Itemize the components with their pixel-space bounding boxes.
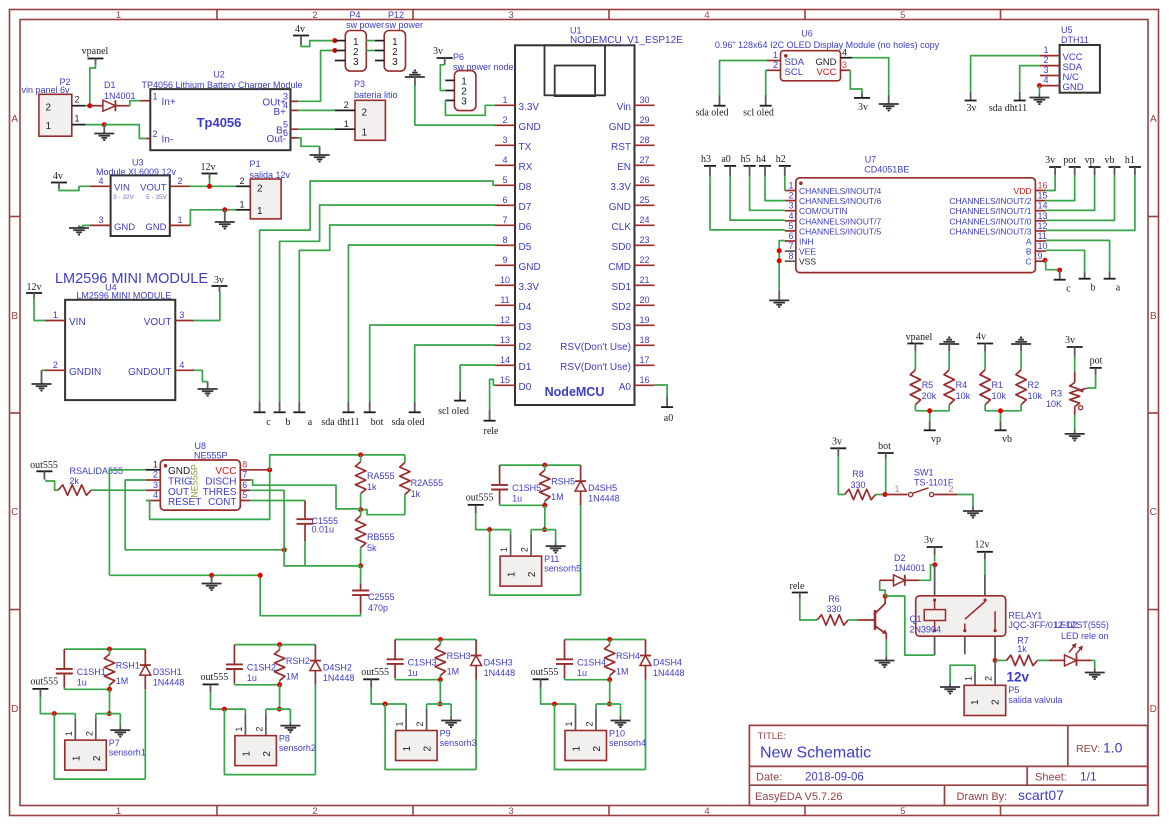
svg-text:1: 1 [970, 699, 981, 705]
svg-text:RST: RST [611, 142, 631, 153]
net label bot at SW1 [878, 441, 894, 459]
terminal vb at U7 [1105, 155, 1121, 175]
svg-text:D2: D2 [894, 553, 906, 563]
svg-text:2: 2 [527, 571, 538, 577]
wire U7 C to terminal c [1045, 260, 1060, 269]
wire a0 to U7 pin 4 [730, 176, 785, 220]
U4 pin 2 GNDIN [45, 360, 65, 370]
junction bus ground [209, 573, 214, 578]
P9 pin 1 [395, 709, 407, 731]
terminal b at U7 [1079, 272, 1096, 294]
U7 pin 6 INH [785, 231, 814, 247]
svg-text:Module XL6009 12v: Module XL6009 12v [96, 167, 177, 177]
junction U7 C pin [1043, 258, 1048, 263]
svg-text:12v: 12v [1007, 670, 1030, 685]
resistor RSH5 1M [540, 465, 576, 505]
svg-text:U3: U3 [132, 158, 144, 168]
svg-text:1: 1 [116, 10, 121, 21]
connector P11 sensorh5 [500, 554, 581, 586]
svg-text:LM2596 MINI MODULE: LM2596 MINI MODULE [55, 271, 208, 287]
svg-text:2: 2 [239, 176, 244, 186]
svg-text:1: 1 [239, 200, 244, 210]
svg-text:out555: out555 [30, 677, 58, 688]
wire 12v to U4 VIN [34, 298, 45, 321]
svg-text:D4: D4 [519, 302, 532, 313]
svg-text:Out-: Out- [267, 134, 286, 145]
svg-text:4: 4 [1043, 75, 1048, 85]
junction RSH5 bottom [542, 503, 547, 508]
resistor R8 330 [845, 469, 876, 500]
junction RSH2 top [277, 642, 282, 647]
U1 pin 22 CMD [608, 255, 654, 273]
resistor R5 20k [910, 351, 937, 410]
resistor RB555 5k [355, 510, 394, 566]
junction TRIG-THRES [282, 547, 287, 552]
svg-text:2: 2 [312, 10, 317, 21]
svg-text:1/1: 1/1 [1080, 770, 1097, 784]
svg-text:2: 2 [257, 184, 263, 195]
junction P9 pin2 row [438, 702, 443, 707]
switch SW1 TS-1101F [885, 468, 958, 497]
svg-text:1M: 1M [447, 667, 460, 677]
svg-text:1N4448: 1N4448 [323, 673, 355, 683]
svg-text:B: B [11, 311, 18, 322]
svg-text:20k: 20k [922, 391, 937, 401]
junction relay contact R7 P5 [993, 658, 998, 663]
svg-text:RSH4: RSH4 [616, 651, 640, 661]
svg-text:C1SH3: C1SH3 [408, 658, 437, 668]
svg-text:4: 4 [179, 360, 184, 370]
svg-text:2: 2 [788, 191, 793, 201]
svg-text:4: 4 [502, 155, 507, 165]
svg-text:scl oled: scl oled [438, 406, 469, 417]
svg-text:LED2: LED2 [1055, 620, 1078, 630]
svg-text:9: 9 [502, 255, 507, 265]
module U5 DTH11 [1060, 25, 1100, 93]
svg-text:2: 2 [262, 751, 273, 757]
svg-text:1: 1 [241, 751, 252, 757]
svg-text:bateria litio: bateria litio [354, 90, 398, 100]
resistor RSH4 1M [605, 640, 641, 680]
U4 pin 3 VOUT [175, 310, 194, 321]
svg-text:R8: R8 [852, 469, 864, 479]
svg-text:6: 6 [788, 231, 793, 241]
wire vpanel to P2.2 junction [90, 64, 96, 106]
svg-text:2: 2 [1043, 55, 1048, 65]
connector P7 sensorh1 [65, 738, 146, 770]
net label out555 at P10 [531, 667, 559, 688]
svg-text:CHANNELS/INOUT/1: CHANNELS/INOUT/1 [949, 206, 1031, 216]
wire out555 node to diode bottom [224, 709, 315, 775]
P3 pin 2 [335, 100, 355, 110]
svg-text:C: C [11, 507, 18, 518]
U1 pin 24 CLK [612, 215, 655, 233]
svg-text:D4SH2: D4SH2 [323, 663, 352, 673]
svg-text:sda oled: sda oled [695, 108, 728, 119]
svg-text:3: 3 [508, 10, 513, 21]
P1 pin 1 [236, 200, 250, 210]
svg-text:GND: GND [1063, 82, 1084, 93]
svg-text:A: A [1150, 114, 1157, 125]
svg-text:R2A555: R2A555 [411, 478, 444, 488]
U2 pin 6 Out- [267, 128, 298, 145]
junction VEE [777, 248, 782, 253]
svg-text:1k: 1k [367, 482, 377, 492]
svg-text:1M: 1M [286, 672, 299, 682]
svg-text:14: 14 [500, 355, 510, 365]
svg-text:NE555P: NE555P [194, 451, 228, 461]
svg-text:RSV(Don't Use): RSV(Don't Use) [560, 342, 631, 353]
svg-text:CHANNELS/INOUT/4: CHANNELS/INOUT/4 [799, 186, 881, 196]
svg-text:VOUT: VOUT [144, 317, 172, 328]
net label 12v at P1 [201, 162, 218, 179]
wire D2 to 3v junction [920, 565, 936, 581]
module U1 NodeMCU [515, 26, 683, 406]
U4 pin 1 VIN [45, 310, 65, 321]
wire THRES to RB555 bottom [250, 490, 361, 566]
svg-text:U2: U2 [213, 70, 225, 80]
svg-text:VSS: VSS [799, 257, 816, 267]
svg-text:12: 12 [500, 315, 510, 325]
svg-text:1: 1 [395, 721, 405, 726]
svg-text:14: 14 [1038, 201, 1048, 211]
wire P4 to P12 row2 [366, 50, 375, 52]
wire RSH2 bottom to P-row [279, 685, 281, 709]
svg-text:GND: GND [519, 262, 541, 273]
svg-text:RSH5: RSH5 [551, 477, 575, 487]
wire INH VEE VSS to ground [779, 241, 785, 291]
svg-text:1: 1 [507, 571, 518, 577]
wire vb to U7 [1046, 175, 1115, 220]
wire U6 SCL to scl oled [766, 70, 767, 95]
svg-text:P8: P8 [279, 734, 290, 744]
svg-text:1u: 1u [247, 673, 257, 683]
wire D1 to scl oled [460, 365, 495, 392]
svg-text:P4: P4 [350, 10, 361, 20]
terminal sda dht11 at U5 [989, 92, 1027, 114]
net label 12v blue at P5 [1007, 670, 1030, 685]
svg-text:17: 17 [639, 355, 649, 365]
svg-text:sda oled: sda oled [391, 417, 424, 428]
svg-text:24: 24 [639, 215, 649, 225]
svg-text:2N3904: 2N3904 [910, 625, 942, 635]
svg-text:25: 25 [639, 195, 649, 205]
svg-text:EasyEDA V5.7.26: EasyEDA V5.7.26 [755, 791, 842, 803]
U1 pin 2 GND [495, 115, 541, 133]
capacitor C1SH3 1u [387, 640, 437, 680]
U1 pin 9 GND [495, 255, 541, 273]
svg-text:4: 4 [842, 47, 847, 57]
svg-text:5: 5 [242, 490, 247, 500]
connector P6 sw power node [445, 52, 513, 111]
U2 pin 4 B+ [273, 101, 298, 118]
wire VCC to RA555/R2A555 tops [270, 455, 405, 470]
module U2 TP4056 [141, 70, 302, 151]
svg-text:2: 2 [592, 746, 603, 752]
svg-text:P10: P10 [609, 729, 625, 739]
wire D8 to c [260, 181, 495, 402]
svg-text:D3: D3 [519, 322, 532, 333]
wire relay NO contact down [994, 636, 996, 660]
junction RA555 top [358, 452, 363, 457]
U8 pin 1 GND [146, 460, 160, 470]
svg-text:out555: out555 [531, 667, 559, 678]
connector P3 bateria litio [354, 79, 398, 140]
terminal c [254, 402, 272, 428]
svg-text:salida 12v: salida 12v [250, 170, 291, 180]
svg-text:C2555: C2555 [368, 592, 395, 602]
wire bot to junction [885, 459, 887, 495]
svg-text:D0: D0 [519, 382, 532, 393]
wire sensorh2 top node [234, 644, 315, 646]
svg-text:3: 3 [392, 57, 398, 68]
svg-text:470p: 470p [368, 603, 388, 613]
net label out555 at P7 [30, 677, 58, 698]
svg-text:3.3V: 3.3V [519, 102, 540, 113]
svg-text:12v: 12v [27, 282, 42, 293]
svg-text:4v: 4v [53, 171, 63, 182]
svg-text:1N4448: 1N4448 [588, 494, 620, 504]
svg-text:1N4448: 1N4448 [653, 668, 685, 678]
gnd bus 555 [109, 574, 260, 576]
svg-text:3: 3 [461, 97, 467, 108]
svg-text:1N4001: 1N4001 [894, 563, 926, 573]
svg-text:SCL: SCL [785, 67, 803, 78]
svg-text:2: 2 [362, 108, 368, 119]
U5 pin 1 VCC [1040, 45, 1060, 56]
connector P5 salida valvula [964, 685, 1062, 716]
resistor R2A555 1k [400, 455, 443, 515]
svg-text:VCC: VCC [816, 67, 836, 78]
junction VSS [777, 258, 782, 263]
terminal scl oled [438, 392, 469, 417]
svg-text:10: 10 [500, 275, 510, 285]
U6 pin 4 GND [841, 47, 853, 57]
svg-text:9: 9 [1038, 251, 1043, 261]
svg-text:2: 2 [92, 755, 103, 761]
svg-text:1u: 1u [408, 668, 418, 678]
svg-text:P3: P3 [354, 79, 365, 89]
terminal a [293, 402, 312, 428]
svg-text:REV:: REV: [1076, 743, 1100, 755]
U1 pin 25 GND [609, 195, 655, 213]
svg-text:vp: vp [931, 434, 941, 445]
svg-text:4: 4 [98, 176, 103, 186]
svg-text:a0: a0 [664, 413, 673, 424]
svg-text:C: C [1150, 507, 1157, 518]
U1 pin 20 SD2 [612, 295, 655, 313]
svg-text:vb: vb [1105, 155, 1115, 166]
svg-text:CHANNELS/INOUT/2: CHANNELS/INOUT/2 [949, 196, 1031, 206]
P8 pin 2 [254, 709, 266, 736]
junction U5 GND [1037, 83, 1042, 88]
svg-text:10K: 10K [1046, 399, 1062, 409]
svg-text:1k: 1k [411, 489, 421, 499]
wire D1 to U2 In+ [129, 101, 140, 106]
net label 12v at U4 [26, 282, 42, 298]
svg-text:Drawn By:: Drawn By: [957, 791, 1008, 803]
wire pin2 row to ground P10 [596, 704, 621, 717]
svg-text:RSV(Don't Use): RSV(Don't Use) [560, 362, 631, 373]
diode D4SH3 1N4448 [471, 640, 516, 680]
wire U6 VCC to 3v [850, 70, 862, 93]
svg-text:2018-09-06: 2018-09-06 [805, 772, 864, 784]
wire h3 to U7 pin 5 [710, 176, 785, 230]
svg-text:3: 3 [508, 806, 513, 817]
svg-text:VCC: VCC [215, 466, 236, 477]
net label out555 at P9 [361, 667, 389, 688]
resistor RSH3 1M [435, 640, 471, 680]
svg-text:13: 13 [500, 335, 510, 345]
svg-text:C1SH2: C1SH2 [247, 663, 276, 673]
wire DISCH to node [250, 480, 361, 509]
terminal h1 at U7 [1125, 155, 1141, 175]
svg-text:CHANNELS/INOUT/0: CHANNELS/INOUT/0 [949, 216, 1031, 226]
svg-text:5: 5 [502, 175, 507, 185]
wire D2 to sda oled [415, 345, 495, 402]
U8 pin 8 VCC [240, 460, 250, 470]
svg-text:TS-1101F: TS-1101F [914, 478, 954, 488]
terminal b [274, 402, 291, 428]
wire D0 to rele [490, 379, 495, 410]
svg-text:a: a [1116, 283, 1121, 294]
resistor R2 10k [1016, 351, 1043, 410]
svg-text:Tp4056: Tp4056 [197, 115, 242, 130]
wire U4 GNDOUT to ground [194, 370, 207, 381]
U8 pin 5 CONT [240, 490, 250, 500]
svg-text:2k: 2k [70, 476, 80, 486]
svg-text:CHANNELS/INOUT/3: CHANNELS/INOUT/3 [949, 226, 1031, 236]
terminal vp [924, 422, 941, 446]
wire D5 to sda dht11 [348, 245, 495, 402]
svg-text:GNDIN: GNDIN [69, 367, 101, 378]
U1 pin 8 D5 [495, 235, 532, 253]
wire C1SH4 bottom row [565, 679, 610, 681]
U3 pin 4 VIN [90, 176, 111, 186]
svg-text:CHANNELS/INOUT/7: CHANNELS/INOUT/7 [799, 216, 881, 226]
ground at P8 [280, 722, 300, 733]
svg-text:10k: 10k [992, 391, 1007, 401]
svg-text:R1: R1 [992, 380, 1004, 390]
svg-text:D2: D2 [519, 342, 532, 353]
junction RA-RB-DISCH node [358, 507, 363, 512]
junction RB555 bottom THRES [358, 563, 363, 568]
svg-text:C: C [1025, 257, 1031, 267]
ground at P10 [611, 717, 631, 728]
svg-text:27: 27 [639, 155, 649, 165]
svg-text:RSH3: RSH3 [447, 651, 471, 661]
wire R7 to LED [1037, 659, 1048, 661]
U8 pin 6 THRES [240, 480, 250, 490]
terminal a0 [721, 154, 736, 176]
svg-text:RSALIDA555: RSALIDA555 [70, 466, 124, 476]
connector P12 sw power [375, 10, 423, 71]
svg-text:A: A [1026, 237, 1032, 247]
wire SW1 to ground [958, 495, 973, 507]
svg-text:2: 2 [520, 547, 530, 552]
wire 3v to P6.2 [440, 65, 445, 91]
svg-text:rele: rele [484, 426, 500, 437]
svg-text:P1: P1 [250, 159, 261, 169]
junction 3v-D2-coil [932, 562, 937, 567]
ground at SW1 [963, 507, 983, 518]
svg-text:3: 3 [1043, 65, 1048, 75]
svg-text:3: 3 [153, 480, 158, 490]
svg-text:6: 6 [242, 480, 247, 490]
wire P2.2 to D1 [85, 105, 89, 107]
svg-text:D4SH5: D4SH5 [588, 483, 617, 493]
svg-text:16: 16 [1038, 181, 1048, 191]
svg-text:In-: In- [162, 135, 174, 146]
U3 pin 1 GND right [170, 215, 190, 225]
svg-text:1: 1 [773, 50, 778, 60]
ground at LED [1085, 669, 1105, 680]
wire U6 GND to ground [852, 58, 889, 95]
svg-text:7: 7 [242, 470, 247, 480]
junction RSH3 top [438, 637, 443, 642]
svg-text:a: a [308, 417, 313, 428]
svg-text:sensorh1: sensorh1 [109, 748, 146, 758]
wire U5 SDA to sda dht11 [1020, 66, 1040, 92]
svg-text:TITLE:: TITLE: [758, 731, 787, 742]
P5 pin 2 [984, 660, 996, 685]
svg-text:GND: GND [168, 466, 190, 477]
svg-text:330: 330 [850, 480, 865, 490]
svg-text:sw power: sw power [346, 20, 384, 30]
U7 pin 9 C [1025, 251, 1045, 267]
terminal h2 [776, 154, 791, 176]
U1 pin 18 RSV(Don't Use) [560, 335, 654, 353]
net label vpanel at R5 [906, 332, 933, 351]
wire U2 B+ to P3.2 [298, 109, 335, 111]
terminal vp at U7 [1085, 155, 1101, 175]
svg-text:B: B [1150, 311, 1157, 322]
wire out555 to P9 pin1 [371, 688, 406, 710]
svg-text:10k: 10k [956, 391, 971, 401]
P7 pin 1 [64, 719, 76, 741]
svg-text:1u: 1u [577, 668, 587, 678]
ground at 555 bus [202, 575, 222, 590]
svg-text:1: 1 [53, 310, 58, 320]
svg-text:8: 8 [242, 460, 247, 470]
terminal a0 [661, 397, 673, 424]
svg-text:RA555: RA555 [367, 471, 395, 481]
svg-text:15: 15 [1038, 191, 1048, 201]
svg-text:4v: 4v [295, 24, 305, 35]
transistor Q1 2N3904 [858, 597, 887, 640]
svg-text:R3: R3 [1050, 389, 1062, 399]
svg-text:VIN: VIN [69, 317, 86, 328]
capacitor C1SH1 1u [56, 649, 106, 689]
junction P2.1 gnd [102, 122, 107, 127]
svg-text:330: 330 [826, 604, 841, 614]
svg-text:D1: D1 [519, 362, 532, 373]
terminal h5 [741, 154, 756, 176]
junction RSH5 top [542, 463, 547, 468]
svg-text:3.3V: 3.3V [519, 282, 540, 293]
connector P2 vin panel 6v [22, 77, 86, 136]
wire D4SH5 anode to bottom [580, 505, 582, 595]
svg-text:out555: out555 [201, 672, 229, 683]
ground at P5.1 [940, 683, 960, 693]
wire out555 to RSALIDA555 [46, 480, 58, 491]
svg-text:c: c [1066, 284, 1071, 295]
wire out555 node to diode bottom [490, 530, 581, 596]
svg-text:7: 7 [502, 215, 507, 225]
wire D6 to a [299, 225, 495, 402]
svg-text:U6: U6 [801, 29, 813, 39]
svg-text:0.96" 128x64 I2C OLED Display: 0.96" 128x64 I2C OLED Display Module (no… [715, 40, 940, 50]
